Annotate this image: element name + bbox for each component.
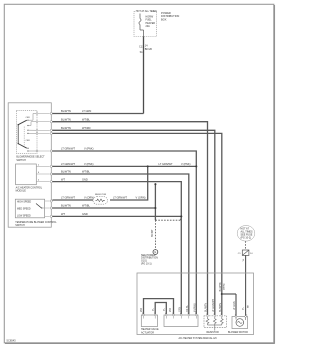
svg-text:BL/WTN: BL/WTN bbox=[205, 303, 208, 312]
svg-text:BK/WT: BK/WT bbox=[151, 229, 154, 237]
svg-text:LT GRN: LT GRN bbox=[82, 109, 91, 113]
svg-text:LOW SPEED: LOW SPEED bbox=[17, 216, 31, 218]
svg-text:V (PNK): V (PNK) bbox=[84, 162, 94, 166]
svg-text:V (PNK): V (PNK) bbox=[193, 303, 196, 312]
svg-text:(GRN): (GRN) bbox=[224, 283, 226, 290]
svg-text:HIGH SPEED: HIGH SPEED bbox=[17, 201, 32, 203]
svg-text:BL/WTN: BL/WTN bbox=[219, 303, 222, 312]
svg-text:GND: GND bbox=[82, 177, 88, 181]
svg-text:LT GRN/WT: LT GRN/WT bbox=[159, 162, 173, 166]
svg-text:LT GRN/WT: LT GRN/WT bbox=[61, 196, 75, 200]
svg-text:WT: WT bbox=[61, 177, 65, 181]
svg-text:GND: GND bbox=[82, 212, 88, 216]
svg-text:DK BL: DK BL bbox=[186, 304, 189, 312]
svg-text:WT/BL: WT/BL bbox=[82, 117, 90, 121]
svg-text:VIO: VIO bbox=[140, 308, 143, 312]
svg-text:LT GRN/WT: LT GRN/WT bbox=[61, 147, 75, 151]
svg-text:WT/RD: WT/RD bbox=[82, 126, 91, 130]
svg-text:MODULE: MODULE bbox=[16, 190, 27, 193]
svg-text:OFF: OFF bbox=[26, 117, 31, 119]
svg-text:(PG 10-1): (PG 10-1) bbox=[141, 263, 152, 266]
svg-text:BL/WTN: BL/WTN bbox=[61, 170, 71, 174]
svg-text:WT/BL: WT/BL bbox=[82, 204, 90, 208]
svg-text:V (ORN): V (ORN) bbox=[136, 196, 146, 200]
svg-text:V (ORN): V (ORN) bbox=[84, 196, 94, 200]
svg-text:WT: WT bbox=[61, 212, 65, 216]
svg-text:POWER: POWER bbox=[161, 11, 171, 15]
svg-text:BL/WTN: BL/WTN bbox=[61, 109, 71, 113]
svg-text:BLOWER MOTOR: BLOWER MOTOR bbox=[228, 331, 248, 334]
svg-text:BOX: BOX bbox=[161, 18, 167, 22]
svg-text:A/C-HEATER SYSTEM-MANUAL A/C: A/C-HEATER SYSTEM-MANUAL A/C bbox=[179, 337, 218, 340]
svg-text:ACTUATOR: ACTUATOR bbox=[141, 331, 154, 334]
svg-text:BL/WTN: BL/WTN bbox=[61, 126, 71, 130]
svg-text:VIO: VIO bbox=[169, 308, 172, 312]
svg-text:5C6543: 5C6543 bbox=[7, 338, 17, 342]
svg-text:GRY: GRY bbox=[178, 306, 181, 312]
svg-text:RESISTOR: RESISTOR bbox=[207, 331, 219, 334]
svg-text:V (PNK): V (PNK) bbox=[84, 147, 94, 151]
svg-text:C13: C13 bbox=[139, 45, 144, 48]
svg-text:BK/LB: BK/LB bbox=[145, 48, 152, 51]
svg-text:SWITCH: SWITCH bbox=[16, 159, 26, 162]
svg-text:HOT AT ALL TIMES: HOT AT ALL TIMES bbox=[136, 10, 157, 13]
svg-text:LT GRN/WT: LT GRN/WT bbox=[113, 196, 127, 200]
svg-text:BL/WTN: BL/WTN bbox=[219, 282, 222, 291]
svg-text:MED SPEED: MED SPEED bbox=[17, 208, 31, 210]
svg-text:DISTRIBUTION: DISTRIBUTION bbox=[161, 14, 179, 18]
svg-text:WT/BL: WT/BL bbox=[82, 170, 90, 174]
svg-text:RESISTOR: RESISTOR bbox=[95, 194, 107, 196]
svg-text:OFF: OFF bbox=[26, 140, 31, 142]
svg-text:SWITCH: SWITCH bbox=[15, 224, 25, 227]
svg-text:LT GRN/WT: LT GRN/WT bbox=[212, 299, 215, 312]
svg-text:LT GRN/WT: LT GRN/WT bbox=[61, 162, 75, 166]
svg-text:20A: 20A bbox=[146, 25, 151, 28]
svg-text:(PG 10-2): (PG 10-2) bbox=[241, 237, 252, 240]
svg-text:V (PNK): V (PNK) bbox=[181, 162, 191, 166]
svg-text:BL/WTN: BL/WTN bbox=[61, 204, 71, 208]
svg-text:BL/WTN: BL/WTN bbox=[61, 117, 71, 121]
